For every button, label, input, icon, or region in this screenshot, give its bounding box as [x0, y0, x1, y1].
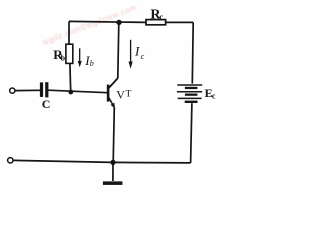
battery Ec plates [177, 85, 202, 103]
resistor Rb [66, 44, 73, 63]
wire right rail lower [191, 103, 192, 163]
svg-text:wgdz.com©wgdzjxw.com: wgdz.com©wgdzjxw.com [41, 3, 139, 48]
wire collector vertical [118, 23, 119, 78]
svg-text:c: c [159, 12, 163, 22]
wire right rail upper [191, 22, 194, 83]
node top junction [116, 20, 121, 25]
svg-text:V: V [116, 88, 125, 102]
wire bottom rail [13, 160, 191, 163]
capacitor C plates [40, 82, 49, 97]
wire Rb to base node [69, 63, 72, 92]
svg-text:T: T [125, 88, 131, 99]
svg-text:I: I [134, 44, 140, 59]
resistor Rc [146, 20, 166, 25]
watermark [41, 3, 139, 48]
terminal input top [10, 88, 15, 93]
wire input to capacitor [15, 89, 40, 91]
ground bar [103, 181, 123, 185]
transistor VT base bar [107, 85, 110, 102]
svg-text:b: b [61, 54, 66, 63]
svg-text:c: c [141, 52, 145, 61]
wire emitter vertical [113, 107, 114, 162]
terminal input bottom [8, 158, 13, 163]
wire left vertical to Rb [68, 21, 70, 44]
wire base [48, 90, 107, 93]
transistor VT emitter with arrow [109, 98, 114, 108]
wire top-right horizontal [166, 21, 194, 23]
current arrow Ic [129, 40, 133, 69]
transistor VT collector stroke [109, 78, 118, 88]
node emitter junction [110, 160, 115, 165]
current arrow Ib [78, 48, 82, 67]
ground stem [112, 162, 114, 181]
node base junction [68, 90, 73, 95]
svg-text:c: c [212, 91, 216, 100]
svg-text:b: b [90, 59, 94, 68]
wire top-left horizontal [69, 21, 146, 22]
svg-text:C: C [42, 97, 51, 111]
